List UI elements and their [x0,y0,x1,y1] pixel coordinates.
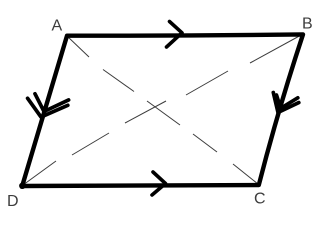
diagonal BD dash 3 [125,101,166,123]
diagonal AC dash 4 [193,134,217,152]
parallelogram ABCD outline [22,34,303,186]
svg-text:A: A [52,18,63,35]
svg-text:D: D [7,193,19,210]
vertex D dot [19,183,25,189]
double arrow on AD (outer) [28,98,68,117]
arrow on DC [152,172,166,195]
diagonal AC dash 3 [147,101,180,125]
diagonal BD dash 1 [250,34,303,63]
diagonal BD dash 2 [186,71,228,95]
diagonal BD dash 5 [23,161,56,185]
svg-text:B: B [302,16,313,33]
svg-text:C: C [254,191,266,208]
diagonal AC dash 1 [67,36,89,57]
arrow on AB [167,22,183,48]
diagonal AC dash 5 [233,164,258,184]
diagonal AC dash 2 [103,70,134,92]
double arrow on BC (inner) [277,95,298,108]
diagonal BD dash 4 [72,133,109,155]
double arrow on AD (inner) [35,94,69,112]
double arrow on BC (outer) [273,93,299,113]
